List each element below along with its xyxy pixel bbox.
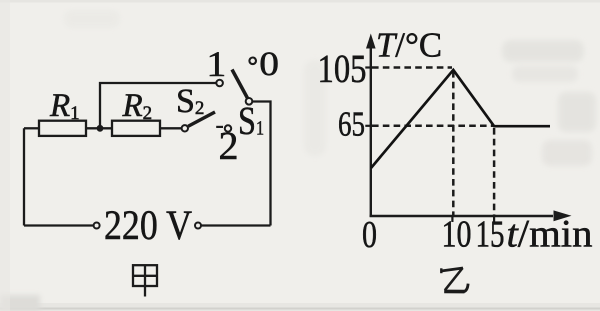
caption Jia (chinese) <box>133 265 157 296</box>
dashed line t=15 <box>493 128 496 215</box>
dashed line T=65 <box>372 125 493 128</box>
svg-text:1: 1 <box>206 44 226 84</box>
dashed line T=105 <box>372 66 452 69</box>
svg-text:T/°C: T/°C <box>376 26 442 65</box>
switch S1 pivot terminal <box>246 98 253 105</box>
dashed line t=10 <box>452 71 455 215</box>
svg-text:10: 10 <box>442 214 472 256</box>
caption Yi (chinese) <box>441 268 468 292</box>
x-axis arrowhead <box>554 210 572 221</box>
switch S1 terminal 1 <box>216 80 223 87</box>
switch S1 terminal 2 <box>225 125 231 131</box>
wire bottom left <box>24 224 94 226</box>
resistor R1 <box>39 121 86 136</box>
resistor R2 <box>112 121 160 136</box>
wire left vertical <box>23 128 25 225</box>
tick t=10 <box>451 216 453 222</box>
wire stub to terminal 2 <box>216 126 223 128</box>
label terminal 0 <box>259 46 279 83</box>
wire R1 left lead <box>24 127 39 129</box>
wire S1 pivot to right rail <box>252 102 270 226</box>
wire bottom right <box>201 224 271 226</box>
svg-text:2: 2 <box>219 123 239 168</box>
y-axis arrowhead <box>366 34 376 49</box>
switch S1 blade <box>232 70 249 101</box>
svg-text:15: 15 <box>476 214 505 256</box>
svg-text:0: 0 <box>362 214 377 256</box>
wire R1 to R2 <box>86 127 112 129</box>
svg-text:220 V: 220 V <box>104 203 192 249</box>
svg-text:105: 105 <box>318 46 367 91</box>
battery terminal right <box>195 223 201 229</box>
wire branch up from junction <box>100 83 216 128</box>
tick 105 <box>365 66 371 68</box>
svg-text:t/min: t/min <box>507 213 593 256</box>
svg-text:65: 65 <box>338 105 365 144</box>
tick t=15 <box>493 216 495 222</box>
battery terminal left <box>94 223 100 229</box>
switch S1 terminal 0 <box>249 58 256 65</box>
wire R2 right lead <box>160 127 182 129</box>
junction node dot <box>97 125 104 132</box>
switch S2 pivot terminal <box>182 125 188 131</box>
temperature curve <box>371 70 550 168</box>
switch S2 blade <box>188 112 215 126</box>
label terminal 1 <box>206 44 226 84</box>
graph y-axis <box>370 46 372 217</box>
tick 65 <box>365 125 371 127</box>
graph x-axis <box>370 215 553 217</box>
svg-text:0: 0 <box>259 46 279 83</box>
